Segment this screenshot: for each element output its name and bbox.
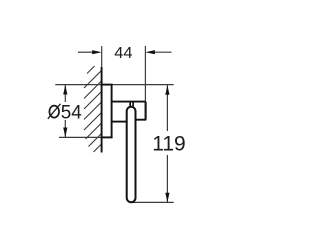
dimension diameter 54 line (64, 85, 66, 102)
dimension diameter symbol (49, 106, 59, 118)
rosette bottom extension line (59, 136, 101, 138)
holder arm right edge (145, 102, 147, 120)
extension line 44 left (101, 46, 103, 67)
holder arm bottom left edge (111, 121, 127, 123)
holder arm top edge (111, 101, 145, 103)
wall face line (101, 67, 103, 153)
bottom extension line (ring bottom reference) (131, 201, 174, 203)
svg-text:119: 119 (152, 132, 186, 156)
top extension line (product top reference) (55, 84, 173, 86)
extension line 44 right (144, 46, 146, 102)
pivot pin (129, 102, 131, 106)
towel ring (side view, stadium outline) (127, 107, 136, 202)
svg-text:54: 54 (61, 101, 82, 123)
dimension 44 line left arrow (78, 51, 93, 53)
svg-text:44: 44 (114, 45, 132, 62)
rosette plate bottom edge (102, 136, 113, 138)
dimension 119 line (166, 85, 168, 131)
wall hatching (84, 66, 102, 152)
rosette plate top edge (102, 84, 113, 86)
dimension 44 line right arrow (154, 51, 172, 53)
holder arm bottom right edge (136, 119, 146, 121)
rosette plate right edge (111, 85, 113, 138)
